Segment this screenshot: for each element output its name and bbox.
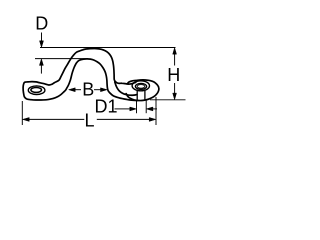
dimension L line left segment [29,118,84,120]
extension line D1 right [145,100,147,113]
right foot countersink outer rim [132,81,149,91]
dimension D down arrow [40,41,44,48]
extension line top of bow [40,47,176,49]
eye strap body outline (bow, left foot, inner opening) [23,49,137,101]
dimension B right leader [94,89,101,91]
dimension H down arrow [173,93,177,100]
extension line D1 left [136,100,138,113]
right foot base plate [126,80,159,101]
dimension D1 right tail [153,108,157,110]
dimension B left leader [75,89,81,91]
dimension D up arrow [39,59,43,66]
extension line L left [21,101,23,125]
svg-text:D: D [35,13,48,33]
right hole bore wall right [144,90,146,100]
dimension D1 leader from label [115,108,131,110]
dimension D1 right arrow [146,107,153,111]
extension line L right [155,97,157,125]
dimension L left arrow [23,118,30,122]
right foot hole ring outer [135,83,146,89]
svg-text:H: H [167,65,180,85]
svg-text:B: B [82,79,94,99]
left foot hole inner ring [31,87,42,92]
svg-text:D1: D1 [95,96,118,116]
dimension H upper shaft [174,54,176,66]
svg-text:L: L [85,110,95,130]
dimension L line right segment [97,118,150,120]
left foot hole outer rim [28,86,45,95]
right foot hole ring inner [137,85,145,89]
extension line base at right foot [150,99,186,101]
dimension B right arrow [101,88,108,92]
dimension D leader shaft [41,33,43,42]
extension line bottom of bow tube [35,58,88,60]
dimension H up arrow [173,48,177,55]
right hole bore wall left [136,90,138,100]
dimension B left arrow [69,88,76,92]
dimension H lower shaft [174,83,176,94]
dimension L right arrow [149,118,156,122]
dimension D lower shaft [40,65,42,74]
strap lower edge sweep onto right foot [115,82,137,95]
dimension D1 left arrow [130,107,137,111]
